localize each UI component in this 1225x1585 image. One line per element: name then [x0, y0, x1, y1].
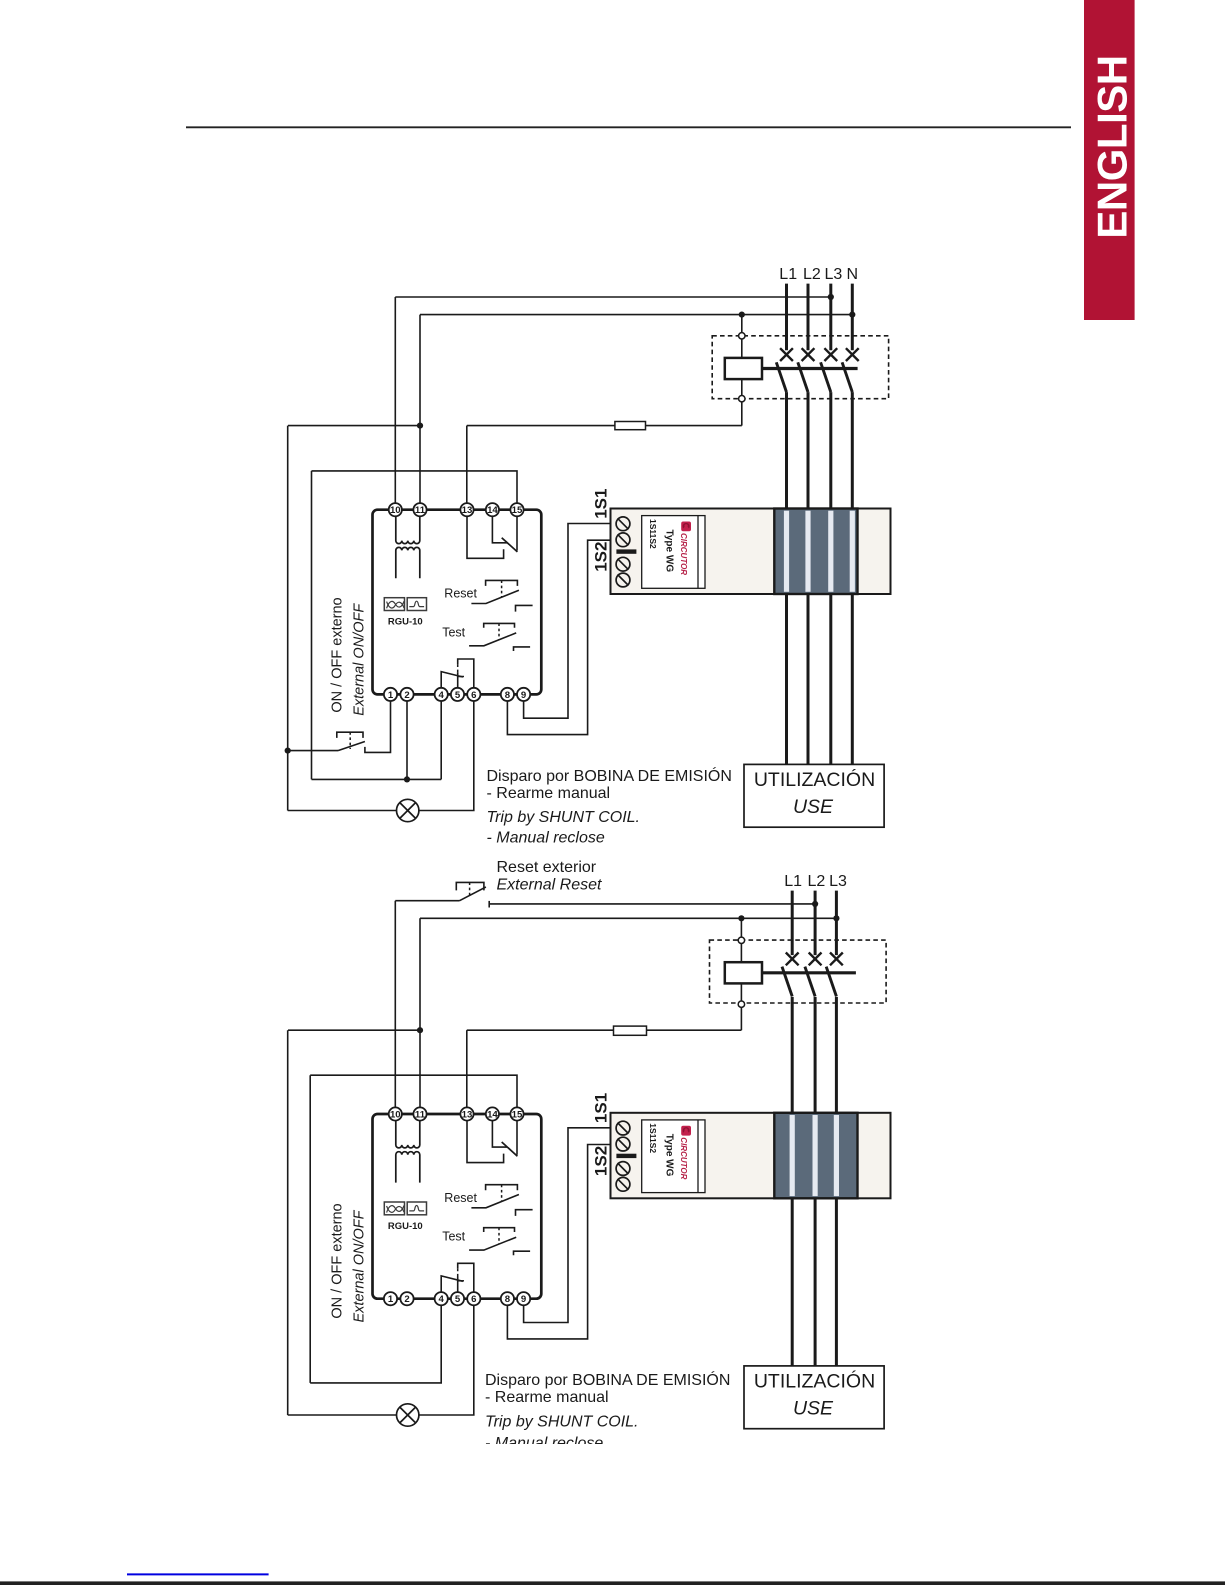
svg-text:- Manual reclose: - Manual reclose: [487, 830, 605, 847]
svg-text:Disparo por BOBINA DE EMISIÓN: Disparo por BOBINA DE EMISIÓN: [487, 766, 732, 785]
svg-text:1S1: 1S1: [592, 1093, 611, 1123]
svg-text:Disparo por BOBINA DE EMISIÓN: Disparo por BOBINA DE EMISIÓN: [485, 1370, 730, 1389]
svg-text:14: 14: [487, 505, 498, 516]
svg-text:Reset: Reset: [444, 587, 477, 601]
svg-text:ON / OFF externo: ON / OFF externo: [330, 1203, 346, 1318]
svg-text:10: 10: [390, 505, 401, 516]
svg-text:5: 5: [455, 1294, 461, 1305]
svg-text:L3: L3: [825, 266, 843, 283]
svg-text:11: 11: [415, 505, 426, 516]
svg-text:UTILIZACIÓN: UTILIZACIÓN: [754, 1370, 875, 1393]
svg-text:L1: L1: [779, 266, 797, 283]
svg-text:USE: USE: [793, 1398, 834, 1420]
svg-text:ENGLISH: ENGLISH: [1089, 55, 1136, 238]
svg-text:8: 8: [505, 690, 511, 701]
svg-text:Test: Test: [442, 625, 465, 639]
svg-text:CIRCUTOR: CIRCUTOR: [679, 533, 688, 575]
svg-text:Reset: Reset: [444, 1191, 477, 1205]
svg-text:ON / OFF externo: ON / OFF externo: [330, 597, 346, 712]
svg-text:1: 1: [388, 1294, 394, 1305]
svg-text:1: 1: [388, 690, 394, 701]
svg-text:L2: L2: [808, 873, 826, 890]
svg-text:10: 10: [390, 1109, 401, 1120]
svg-text:External Reset: External Reset: [497, 877, 602, 894]
svg-text:1S11S2: 1S11S2: [648, 1123, 658, 1153]
svg-text:9: 9: [521, 1294, 526, 1305]
svg-text:2: 2: [404, 690, 409, 701]
svg-text:4: 4: [439, 1294, 445, 1305]
svg-text:CIRCUTOR: CIRCUTOR: [679, 1137, 688, 1179]
svg-text:RGU-10: RGU-10: [388, 1221, 423, 1232]
svg-text:8: 8: [505, 1294, 511, 1305]
svg-text:2: 2: [404, 1294, 409, 1305]
svg-text:L1: L1: [784, 873, 802, 890]
svg-text:External ON/OFF: External ON/OFF: [352, 603, 368, 716]
svg-text:6: 6: [471, 1294, 476, 1305]
svg-text:N: N: [847, 266, 859, 283]
svg-text:15: 15: [512, 505, 523, 516]
svg-text:- Rearme manual: - Rearme manual: [485, 1389, 609, 1406]
svg-text:13: 13: [462, 1109, 473, 1120]
svg-text:1S11S2: 1S11S2: [648, 519, 658, 549]
svg-text:6: 6: [471, 690, 476, 701]
svg-text:11: 11: [415, 1109, 426, 1120]
svg-text:1S1: 1S1: [592, 489, 611, 519]
svg-text:5: 5: [455, 690, 461, 701]
svg-text:4: 4: [439, 690, 445, 701]
svg-text:Type WG: Type WG: [664, 1134, 675, 1177]
svg-text:L2: L2: [803, 266, 821, 283]
svg-text:Trip by SHUNT COIL.: Trip by SHUNT COIL.: [487, 809, 641, 826]
svg-text:13: 13: [462, 505, 473, 516]
svg-text:Test: Test: [442, 1230, 465, 1244]
svg-text:1S2: 1S2: [592, 1146, 611, 1176]
svg-text:Type WG: Type WG: [664, 530, 675, 573]
svg-text:14: 14: [487, 1109, 498, 1120]
svg-text:Trip by SHUNT COIL.: Trip by SHUNT COIL.: [485, 1414, 639, 1431]
svg-text:Reset exterior: Reset exterior: [497, 859, 597, 876]
svg-text:RGU-10: RGU-10: [388, 617, 423, 628]
svg-text:- Rearme manual: - Rearme manual: [487, 785, 611, 802]
svg-text:L3: L3: [829, 873, 847, 890]
svg-text:1S2: 1S2: [592, 542, 611, 572]
svg-text:External ON/OFF: External ON/OFF: [352, 1209, 368, 1322]
svg-text:UTILIZACIÓN: UTILIZACIÓN: [754, 768, 875, 791]
svg-text:15: 15: [512, 1109, 523, 1120]
svg-text:9: 9: [521, 690, 526, 701]
svg-text:USE: USE: [793, 796, 834, 818]
